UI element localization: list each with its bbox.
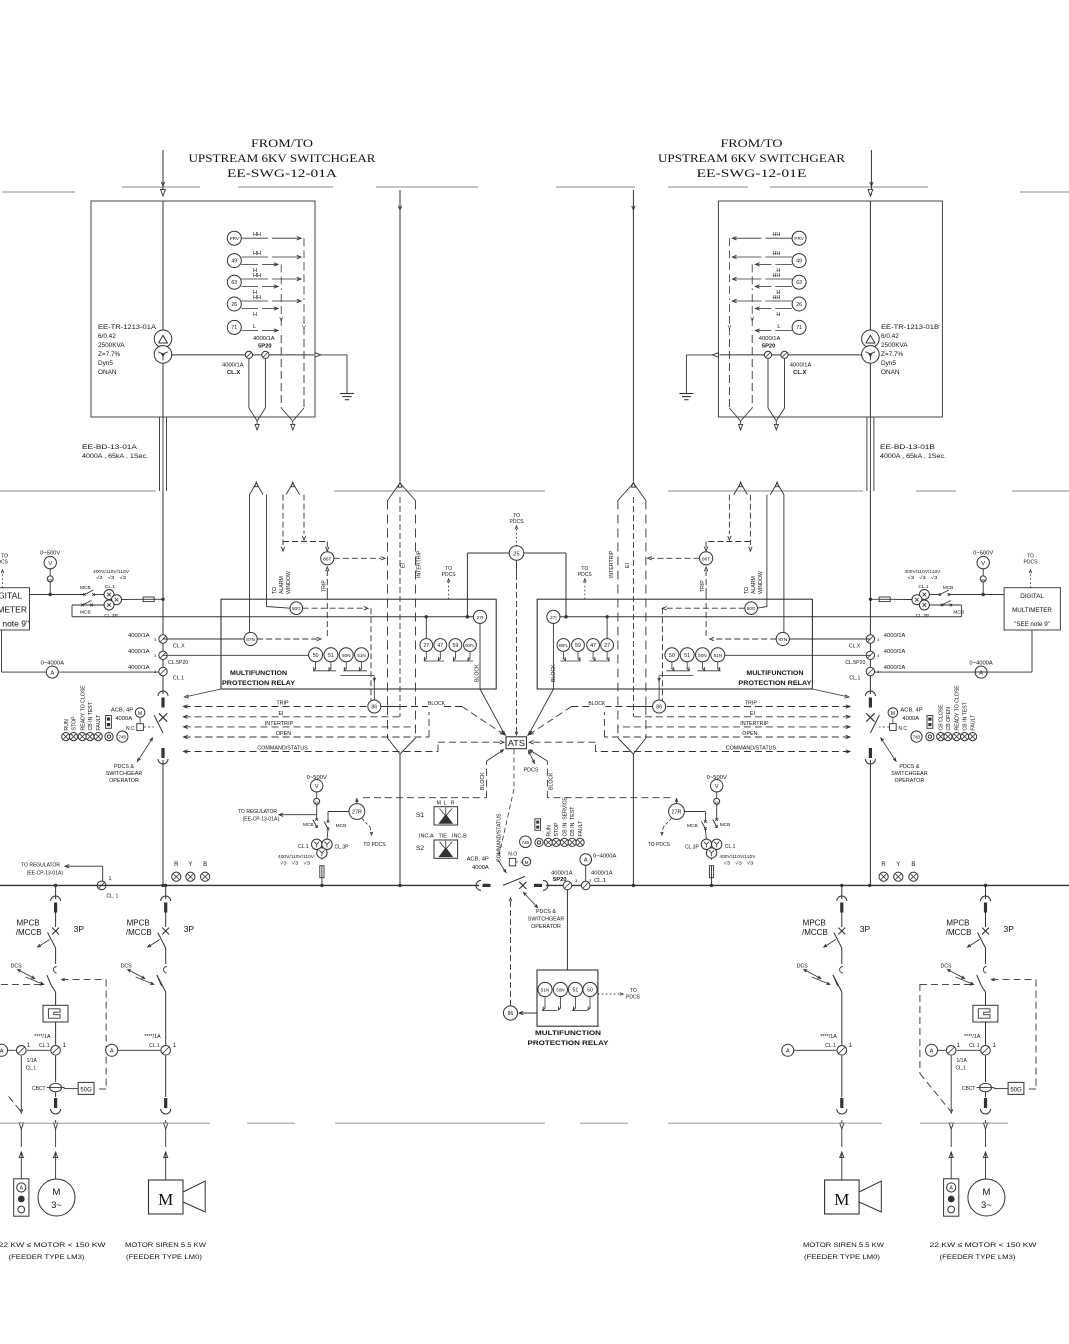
feeder LM0 breaker blade [824, 933, 842, 965]
relay 50N (A) [339, 648, 353, 662]
svg-text:51: 51 [684, 653, 690, 659]
feeder LM3 caption [0, 1242, 106, 1261]
svg-text:FAULT: FAULT [971, 714, 977, 731]
svg-text:FAULT: FAULT [578, 820, 584, 837]
ACB incomer blade (A) [154, 715, 163, 733]
node dot right 27I line [564, 615, 567, 618]
wire ACB to bus (A) [162, 760, 164, 885]
dotted TO PDCS from multimeter (B) [1024, 554, 1039, 588]
wire transformer secondary to box edge (A) [171, 354, 314, 356]
wire 27I block drop to ATS (A) [480, 623, 506, 735]
relay 59 (B) [572, 639, 585, 652]
fuse metering (A) [122, 597, 164, 602]
dotted TO PDCS into relay box (B) [578, 566, 593, 599]
relay 71 (A) [227, 320, 241, 334]
svg-text:4000/1A: 4000/1A [790, 363, 812, 369]
label TO REGULATOR at PT (A) [238, 809, 317, 823]
feeder LM0 at x=166: tap from bus [165, 885, 167, 899]
feeder LM3 ammeter A [0, 1044, 50, 1056]
node dots on 27I line (B) [564, 615, 609, 618]
CT 4000/1A CL.X incomer (A) [128, 633, 185, 650]
svg-text:M: M [525, 860, 529, 865]
feeder LM3 motor M 3~ [968, 1129, 1005, 1216]
svg-text:OPERATOR: OPERATOR [109, 778, 139, 784]
relay 27 group block hooks (A) [424, 651, 473, 661]
svg-text:4000/1A: 4000/1A [591, 871, 613, 877]
relay 51N (B) [711, 648, 725, 662]
svg-text:86: 86 [656, 705, 662, 711]
svg-text:4000/1A: 4000/1A [253, 336, 275, 342]
relay 26 (B) [792, 297, 806, 311]
MCB upper metering (A) [80, 585, 95, 596]
svg-text:ALARM: ALARM [279, 576, 285, 594]
wire leg to 50G (A) [267, 607, 291, 609]
svg-text:50: 50 [669, 653, 675, 659]
relay PRV (B) [792, 231, 806, 245]
svg-text:63: 63 [796, 280, 802, 286]
feeder LM0 ammeter A [106, 1044, 161, 1056]
svg-text:PDCS: PDCS [626, 995, 641, 1001]
svg-text:EE-SWG-12-01E: EE-SWG-12-01E [697, 168, 807, 180]
relay 60FL (B) [557, 639, 570, 652]
wire 27I measuring line (A) [72, 616, 473, 618]
feeder LM3 branch chevron at boundary [19, 1123, 23, 1129]
svg-text:H: H [253, 312, 257, 318]
svg-text:EE-TR-1213-01A: EE-TR-1213-01A [98, 324, 157, 331]
bus VT cluster 3x (A) [312, 830, 333, 858]
svg-text:TO PDCS: TO PDCS [363, 842, 386, 848]
middle section boundary line [0, 490, 1069, 492]
svg-text:A: A [110, 1049, 114, 1055]
ground symbol (A) [340, 394, 354, 400]
ammeter A 0~4000A (B) [969, 661, 993, 679]
wire alarm to 86T (A) [283, 542, 329, 552]
label TRIP vertical (A) [321, 580, 327, 592]
svg-text:WINDOW: WINDOW [758, 571, 764, 594]
svg-text:√3 √3 √3: √3 √3 √3 [280, 861, 311, 866]
svg-text:N.C: N.C [898, 726, 907, 732]
selector switch S1 M-L-R [416, 801, 458, 826]
ACB incomer breaker X (B) [866, 713, 874, 721]
svg-text:UPSTREAM 6KV SWITCHGEAR: UPSTREAM 6KV SWITCHGEAR [189, 153, 376, 165]
fuse bus VT (B) [709, 858, 713, 887]
CT 4000/1A CL.1 incomer (A) [128, 665, 184, 682]
svg-text:MULTIFUNCTION: MULTIFUNCTION [746, 670, 803, 677]
svg-text:87N: 87N [778, 637, 787, 643]
MCB pair bus PT (A) [303, 818, 346, 830]
svg-text:CL.3P: CL.3P [916, 613, 929, 619]
feeder LM3 MPCB/MCCB breaker [16, 913, 85, 938]
svg-text:CL.3P: CL.3P [685, 845, 700, 851]
svg-text:71: 71 [796, 325, 802, 331]
feeder LM0 caption [125, 1242, 207, 1261]
svg-text:HH: HH [772, 273, 780, 279]
svg-text:ONAN: ONAN [98, 369, 117, 376]
feeder LM3 local control station [944, 1179, 959, 1216]
svg-text:BLOCK: BLOCK [588, 701, 606, 707]
svg-text:CL.1: CL.1 [825, 1043, 836, 1049]
auxiliary contact N.C (B) [879, 717, 908, 732]
svg-text:4000/1A: 4000/1A [884, 633, 906, 639]
svg-text:PDCS &: PDCS & [899, 764, 919, 770]
wire transformer secondary to box edge (B) [719, 354, 862, 356]
ACB incomer drawout top contact (B) [865, 691, 875, 708]
svg-text:49: 49 [796, 258, 802, 264]
ATS automatic transfer switch box [506, 737, 527, 749]
feeder LM0 cable chevron at boundary [840, 1120, 844, 1129]
svg-text:3P: 3P [74, 924, 85, 934]
digital multimeter box (B) [1004, 588, 1060, 630]
label VT ratio (A) [93, 569, 130, 580]
feeder LM3 disconnect blade [47, 975, 56, 992]
indicator lamps bus tie RUN STOP CB-IN-SERVICE CB-IN-TEST FAULT [544, 797, 584, 847]
feeder LM0 ammeter A [782, 1044, 837, 1056]
wire voltmeter drop (A) [49, 582, 52, 596]
svg-text:SWITCHGEAR: SWITCHGEAR [891, 771, 928, 777]
feeder LM0 caption [803, 1242, 885, 1261]
svg-text:M: M [437, 801, 442, 807]
wire multimeter to ammeter to CT (A) [2, 630, 164, 672]
wire main vertical in box (A) [162, 201, 164, 331]
svg-text:A: A [50, 670, 54, 676]
alarm cable dashed legs (B) [728, 495, 752, 551]
wire trip collector to 86 (A) [340, 676, 376, 700]
VT signal cable pair down dashed (A) [281, 335, 304, 430]
svg-text:M: M [158, 1190, 173, 1209]
wire VT open-delta to 27I line (B) [929, 605, 961, 617]
CT 4000/1A 5P20 (A) [253, 336, 275, 359]
svg-text:EI: EI [401, 563, 407, 568]
label BLOCK vertical (B) [551, 664, 557, 682]
svg-text:CL.1: CL.1 [969, 1043, 980, 1049]
signal 86 block to ATS dashed (B) [529, 701, 652, 735]
svg-text:60FL: 60FL [559, 643, 569, 648]
wire CT to 50 group (B) [725, 654, 871, 656]
relay 71 L output wire (B) [755, 324, 792, 332]
svg-text:27: 27 [423, 643, 429, 649]
svg-text:86: 86 [371, 705, 377, 711]
relay 25 synchro check [467, 546, 566, 617]
svg-text:6/0.42: 6/0.42 [881, 333, 899, 340]
feeder LM3 motor M 3~ [38, 1129, 75, 1216]
svg-text:/MCCB: /MCCB [946, 928, 972, 937]
svg-text:71: 71 [231, 325, 237, 331]
svg-text:50N: 50N [698, 653, 706, 658]
feeder LM0 MPCB/MCCB breaker [802, 913, 871, 938]
svg-text:EI: EI [625, 563, 631, 568]
svg-text:63: 63 [231, 280, 237, 286]
svg-text:DIGITAL: DIGITAL [1020, 593, 1044, 600]
svg-text:READY TO CLOSE: READY TO CLOSE [80, 685, 86, 731]
svg-text:EI: EI [750, 711, 755, 717]
svg-text:1/1A: 1/1A [27, 1058, 38, 1064]
svg-text:4000/1A: 4000/1A [128, 633, 150, 639]
svg-text:****/1A: ****/1A [820, 1034, 837, 1040]
svg-text:COMMAND/STATUS: COMMAND/STATUS [497, 813, 503, 862]
svg-text:ACB, 4P: ACB, 4P [467, 857, 489, 863]
bus tie drawout contact left [476, 880, 490, 890]
svg-text:BLOCK: BLOCK [480, 772, 486, 790]
svg-text:/MCCB: /MCCB [126, 928, 152, 937]
relay 74B trip supervision (A) [117, 731, 128, 742]
signal EI dashed (B) [633, 711, 850, 719]
test block (A) [106, 716, 112, 729]
svg-text:47: 47 [437, 643, 443, 649]
svg-text:√3 √3 √3: √3 √3 √3 [96, 575, 127, 580]
svg-text:COMMAND/STATUS: COMMAND/STATUS [726, 746, 777, 752]
svg-text:M: M [53, 1187, 61, 1198]
cable chevron right riser [618, 482, 646, 501]
svg-text:5P20: 5P20 [553, 877, 567, 883]
svg-text:CL.1: CL.1 [173, 676, 184, 682]
CT 4000/1A 5P20 (B) [759, 336, 781, 359]
relay group trip hooks bus tie [542, 997, 591, 1011]
svg-text:50N: 50N [342, 653, 350, 658]
svg-text:MCB: MCB [943, 585, 954, 591]
svg-text:vs: vs [48, 578, 52, 582]
wire 27R to VT (A) [328, 812, 349, 821]
busbar label EE-BD-13-01B [880, 444, 946, 460]
dashed wire 87N to TRIP riser (B) [710, 637, 777, 640]
feeder LM3 caption [930, 1242, 1038, 1261]
cable chevron right CT pair [770, 482, 784, 495]
label CL.1 CL.3P bus VT (B) [685, 844, 736, 851]
svg-text:51N: 51N [541, 988, 549, 993]
svg-text:FROM/TO: FROM/TO [721, 138, 783, 150]
svg-text:5P20: 5P20 [762, 344, 776, 350]
svg-text:49: 49 [231, 258, 237, 264]
svg-text:3P: 3P [860, 924, 871, 934]
label EI vertical (B) [625, 563, 631, 568]
svg-text:CL.3P: CL.3P [104, 613, 117, 619]
svg-text:MULTIMETER: MULTIMETER [0, 605, 27, 615]
label INTERTRIP vertical (A) [417, 550, 423, 578]
wire multimeter to VT (A) [30, 594, 84, 596]
feeder LM3 relay 50G box [994, 1082, 1024, 1094]
svg-text:L: L [444, 801, 447, 807]
wire VT open-delta to 27I line (A) [72, 605, 104, 617]
relay 49 HH output wire (A) [241, 251, 301, 259]
bus tie N.O auxiliary contact [508, 852, 521, 866]
svg-text:HH: HH [253, 273, 261, 279]
relay 27 (A) [420, 639, 433, 652]
svg-text:CL.1: CL.1 [298, 844, 309, 850]
svg-text:MCB: MCB [336, 823, 347, 829]
relay 26 HH output wire (B) [732, 295, 792, 303]
feeder LM3 at x=986: tap from bus [985, 885, 987, 899]
svg-text:CL.X: CL.X [173, 644, 185, 650]
svg-text:A: A [0, 1049, 4, 1055]
relay 50G (B) [745, 602, 758, 615]
title FROM/TO UPSTREAM 6KV SWITCHGEAR EE-SWG-12-01A [189, 138, 376, 180]
relay 26 H output wire (B) [755, 307, 792, 318]
svg-text:CBCT: CBCT [32, 1086, 46, 1092]
node dots bus connections [54, 884, 987, 887]
dotted TO PDCS bus tie relay [598, 988, 641, 1001]
svg-text:L: L [253, 324, 256, 330]
svg-text:/MCCB: /MCCB [802, 928, 828, 937]
svg-text:V: V [750, 317, 754, 323]
cable chevron left VT pair [286, 482, 300, 495]
svg-text:V: V [715, 784, 719, 790]
feeder LM0 wire to CT [841, 992, 843, 1045]
svg-text:50: 50 [313, 653, 319, 659]
indicator lamps CB CLOSE CB OPEN READY TO CLOSE CB IN TEST FAULT (B) [937, 685, 977, 741]
feeder LM0 drawout bottom contact [837, 1056, 847, 1114]
block path left 27R to ATS dashed [363, 750, 504, 798]
motor operator M (B) [888, 708, 923, 723]
bus voltmeter V 0~500V (A) [307, 775, 327, 792]
svg-text:CB OPEN: CB OPEN [946, 707, 952, 731]
transformer TA EE-TR-1213-01A 2500KVA Dyn5 [154, 330, 172, 363]
svg-text:HH: HH [253, 251, 261, 257]
ACB incomer breaker X (A) [159, 713, 167, 721]
svg-text:50: 50 [587, 988, 593, 994]
incoming line from upstream (left bus riser) [398, 190, 401, 481]
svg-text:50G: 50G [1010, 1087, 1022, 1093]
svg-text:vs: vs [315, 800, 319, 804]
relay 27 (B) [601, 639, 614, 652]
svg-text:HH: HH [253, 295, 261, 301]
svg-text:PDCS: PDCS [442, 572, 457, 578]
label EI vertical (A) [401, 563, 407, 568]
cable chevron left CT pair [250, 482, 264, 495]
MCB upper metering (B) [938, 585, 953, 596]
svg-text:HH: HH [772, 251, 780, 257]
svg-text:50N: 50N [556, 988, 564, 993]
svg-text:400V/110V/110V: 400V/110V/110V [719, 854, 756, 859]
ACB incomer drawout bottom contact (A) [158, 748, 168, 764]
relay 63 HH output wire (B) [732, 273, 792, 281]
digital multimeter box (A) [0, 588, 30, 630]
svg-text:MPCB: MPCB [946, 919, 969, 928]
svg-text:WINDOW: WINDOW [286, 571, 292, 594]
svg-text:TIE: TIE [439, 834, 448, 840]
dotted TO PDCS from 25 [510, 513, 525, 546]
svg-text:vs: vs [715, 800, 719, 804]
svg-text:47: 47 [590, 643, 596, 649]
svg-text:H: H [776, 312, 780, 318]
svg-text:TO: TO [744, 587, 750, 594]
relay 63 HH output wire (A) [241, 273, 301, 281]
CT secondary cable pair down (B) [768, 359, 785, 431]
bus voltage selector vs (B) [714, 792, 720, 805]
test block bus tie [535, 819, 541, 831]
svg-text:STOP: STOP [72, 716, 78, 731]
bottom section boundary line [0, 1122, 1008, 1124]
main busbar left section [0, 884, 479, 886]
relay 27I undervoltage (B) [547, 610, 560, 623]
svg-text:MCB: MCB [953, 610, 964, 616]
svg-text:OPERATOR: OPERATOR [895, 778, 925, 784]
svg-text:MOTOR SIREN 5.5 KW: MOTOR SIREN 5.5 KW [803, 1242, 885, 1249]
bus tie breaker X [519, 882, 526, 889]
relay 47 (B) [587, 639, 600, 652]
wire CT to 50 group (A) [163, 654, 309, 656]
svg-text:MCB: MCB [303, 822, 314, 828]
svg-text:CB IN TEST: CB IN TEST [963, 701, 969, 730]
dashed 27R TO PDCS (B) [648, 819, 672, 849]
CT 4000/1A CL.X (B) [781, 351, 812, 376]
svg-text:400V/110V/110V: 400V/110V/110V [904, 569, 941, 574]
svg-text:74B: 74B [119, 735, 127, 740]
signal TRIP dashed (B) [666, 701, 850, 709]
svg-text:ATS: ATS [508, 739, 525, 748]
wire transformer below (B) [869, 364, 871, 418]
svg-text:MPCB: MPCB [127, 919, 150, 928]
CT cable legs down (A) [250, 495, 267, 633]
wire main vertical in box (B) [869, 201, 871, 331]
svg-text:CL. 1: CL. 1 [107, 894, 119, 900]
svg-text:Dyn5: Dyn5 [881, 360, 896, 367]
wire drop to 27 (A) [425, 617, 427, 639]
label CL.1 CL.3P metering (B) [916, 584, 929, 619]
cable triple run from box to bus section (A) [160, 417, 167, 491]
svg-text:86: 86 [508, 1011, 514, 1017]
CT 4000/1A CL.X incomer (B) [849, 633, 906, 650]
svg-text:PDCS: PDCS [510, 519, 525, 525]
wire transformer below (A) [162, 364, 164, 418]
svg-text:"SEE note 9": "SEE note 9" [1014, 621, 1050, 628]
svg-text:BLOCK: BLOCK [428, 701, 446, 707]
relay 50/51 group trip hooks (B) [666, 662, 720, 671]
ammeter A bus tie 0~4000A [580, 854, 617, 882]
dashed trip wire 86T to EI cable (B) [648, 557, 700, 560]
svg-text:INC-B: INC-B [452, 834, 467, 840]
svg-text:3P: 3P [184, 924, 195, 934]
svg-text:M: M [138, 711, 142, 717]
svg-text:(EE-CP-13-01A): (EE-CP-13-01A) [27, 871, 64, 877]
alarm collector wire H (B) [750, 264, 754, 330]
svg-text:4000/1A: 4000/1A [551, 871, 573, 877]
svg-text:A: A [584, 858, 588, 864]
svg-text:51: 51 [573, 988, 579, 994]
svg-text:STOP: STOP [554, 822, 560, 837]
svg-text:27R: 27R [672, 810, 682, 816]
relay 50G (A) [290, 602, 303, 615]
label TO ALARM WINDOW (A) [272, 571, 292, 594]
svg-text:4000/1A: 4000/1A [884, 649, 906, 655]
svg-text:S2: S2 [416, 845, 424, 852]
main busbar right section [546, 884, 1069, 886]
svg-text:INTERTRIP: INTERTRIP [417, 550, 423, 578]
svg-text:R: R [451, 801, 455, 807]
label ACB 4P 4000A bus tie [467, 857, 489, 872]
metering VT cluster CL.1/CL.3P (A) [93, 590, 122, 611]
feeder LM3 cable chevron at boundary [983, 1120, 987, 1129]
feeder LM0 drawout bottom contact [161, 1056, 171, 1114]
svg-text:R: R [881, 862, 886, 868]
svg-text:S1: S1 [416, 812, 424, 819]
relay 51N bus tie [538, 982, 552, 996]
voltage selector vs (A) [47, 569, 53, 582]
svg-text:59: 59 [453, 643, 459, 649]
relay 51 (B) [680, 648, 694, 662]
svg-text:V: V [302, 325, 306, 331]
signal EI dashed (A) [184, 711, 401, 719]
indicator double circle (B) [926, 733, 934, 741]
svg-text:27: 27 [604, 643, 610, 649]
wire 27R up to block line (B) [675, 799, 678, 804]
neutral earthing arrow and ground (B) [686, 353, 718, 394]
relay PRV HH output wire (B) [732, 232, 792, 240]
svg-text:PDCS &: PDCS & [114, 764, 134, 770]
voltmeter V 0~500V (A) [40, 551, 60, 569]
node junction VT tap (B) [869, 598, 872, 601]
dotted TO PDCS from multimeter (A) [0, 554, 9, 588]
feeder LM3 contactor [973, 992, 998, 1045]
dashed trip wire 86T to EI cable (A) [334, 557, 385, 560]
